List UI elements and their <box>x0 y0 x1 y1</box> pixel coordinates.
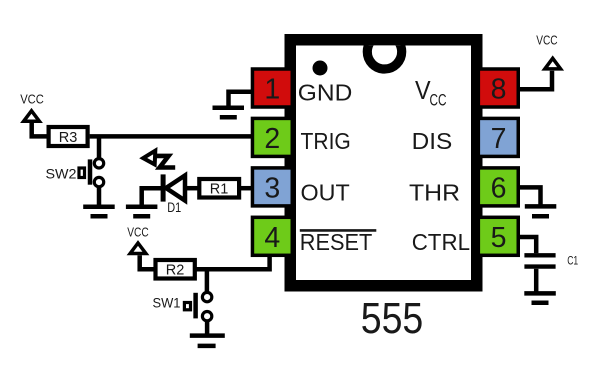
ground (D1) <box>126 207 157 216</box>
svg-text:SW1: SW1 <box>153 296 181 311</box>
wire R2 to pin 4 <box>195 254 270 269</box>
resistor R2 <box>156 260 195 279</box>
svg-text:3: 3 <box>264 172 280 204</box>
svg-text:VCC: VCC <box>536 32 557 47</box>
ground (C1) <box>524 293 556 302</box>
wire VCC to R3 <box>32 123 47 136</box>
IC U1 pin-1 dot <box>313 61 328 76</box>
svg-text:1: 1 <box>264 74 280 106</box>
VCC supply (pin 8) <box>536 32 560 69</box>
pin 5 pad <box>478 217 518 255</box>
switch SW2 <box>79 159 104 187</box>
LED D1 light arrow <box>143 151 175 168</box>
wire SW2 to ground <box>97 187 102 207</box>
svg-text:2: 2 <box>264 123 280 155</box>
switch SW1 <box>184 292 211 321</box>
svg-text:RESET: RESET <box>300 229 373 255</box>
capacitor C1 <box>524 255 555 266</box>
wire pin1 to ground <box>229 92 253 106</box>
pin 3 pad <box>252 168 292 206</box>
wire R3 to pin 2 <box>90 134 253 139</box>
svg-text:8: 8 <box>491 74 507 106</box>
svg-text:555: 555 <box>361 295 424 343</box>
svg-text:VCC: VCC <box>127 224 148 239</box>
pin 7 pad <box>478 118 518 156</box>
wire D1 to R1 <box>187 186 199 191</box>
svg-text:5: 5 <box>491 222 507 254</box>
wire C1 to ground <box>534 269 539 294</box>
LED D1 <box>163 174 185 201</box>
wire VCC to pin 8 <box>519 71 553 90</box>
wire R1 to pin 3 <box>239 186 253 191</box>
pin 6 pad <box>478 168 518 206</box>
pin 4 label RESET with overline <box>300 229 377 255</box>
wire VCC to R2 <box>140 255 154 269</box>
pin 2 pad <box>252 118 292 156</box>
svg-text:THR: THR <box>409 180 460 206</box>
svg-text:V: V <box>415 77 431 105</box>
svg-text:D1: D1 <box>167 200 181 215</box>
svg-text:6: 6 <box>491 172 507 204</box>
svg-text:4: 4 <box>264 222 280 254</box>
pin 4 pad <box>252 217 292 255</box>
wire pin 5 to C1 <box>518 237 536 253</box>
ground (SW2) <box>83 207 115 216</box>
pin 8 pad <box>478 69 518 107</box>
wire pin 6 to ground <box>518 187 541 204</box>
resistor R1 <box>199 179 239 198</box>
pin 8 label VCC subscript <box>415 77 447 110</box>
ground (SW1) <box>190 336 225 346</box>
wire junction to SW2 <box>97 136 102 158</box>
pin 1 pad <box>252 69 292 107</box>
VCC supply (R2) <box>127 224 148 253</box>
svg-text:OUT: OUT <box>301 180 350 206</box>
svg-text:R3: R3 <box>59 130 78 146</box>
svg-text:CTRL: CTRL <box>412 229 471 255</box>
svg-text:SW2: SW2 <box>46 167 77 182</box>
svg-text:R2: R2 <box>166 263 185 279</box>
svg-text:C1: C1 <box>567 254 578 268</box>
ground (pin 1) <box>213 108 245 118</box>
svg-text:TRIG: TRIG <box>301 128 351 154</box>
wire junction to SW1 <box>205 269 210 292</box>
wire ground to D1 cathode <box>142 188 162 206</box>
svg-text:R1: R1 <box>210 182 229 198</box>
wire SW1 to ground <box>205 321 210 336</box>
svg-text:CC: CC <box>430 91 447 110</box>
VCC supply (R3) <box>20 92 44 122</box>
resistor R3 <box>49 127 88 146</box>
svg-text:VCC: VCC <box>20 92 44 107</box>
IC U1 body <box>290 40 477 286</box>
svg-text:DIS: DIS <box>412 128 453 154</box>
svg-text:7: 7 <box>491 123 507 155</box>
svg-text:GND: GND <box>298 79 353 105</box>
ground (pin 6) <box>525 206 557 216</box>
